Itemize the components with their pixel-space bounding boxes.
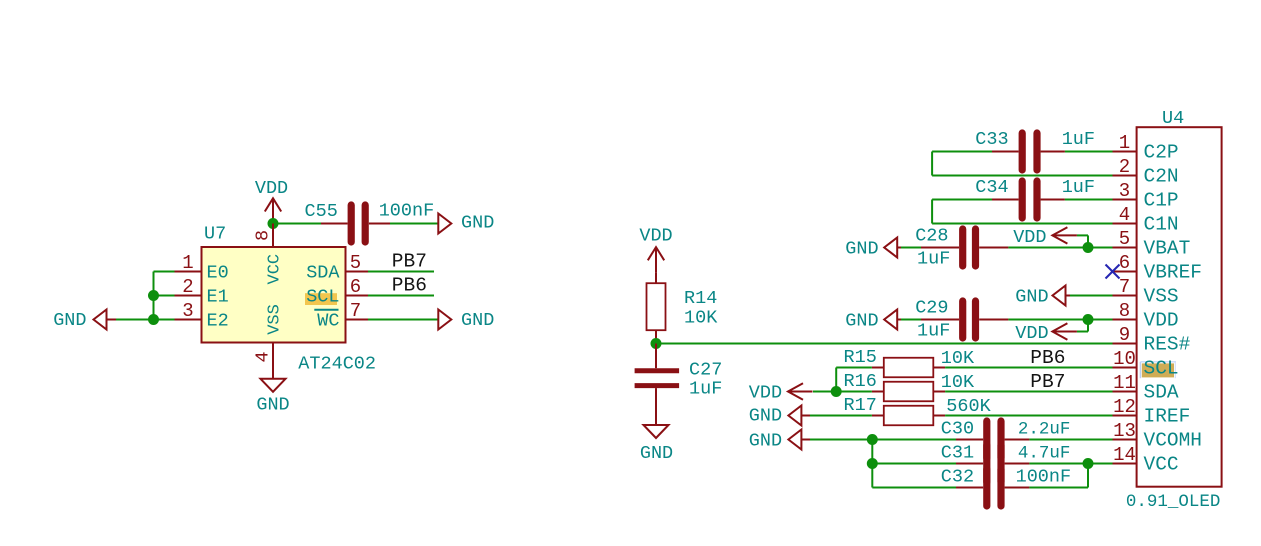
svg-text:7: 7	[1119, 276, 1130, 298]
svg-text:C1N: C1N	[1144, 214, 1179, 236]
svg-text:C31: C31	[941, 443, 974, 464]
svg-text:100nF: 100nF	[379, 201, 435, 222]
wire pin2 row	[932, 175, 1112, 177]
svg-text:1uF: 1uF	[1062, 177, 1095, 198]
highlight on U4 SCL pin name	[1140, 362, 1176, 378]
wire C30 to pin13	[1029, 439, 1112, 441]
U4 pin 14 VCC	[1113, 444, 1179, 476]
wire pin4 row	[932, 223, 1112, 225]
svg-text:VSS: VSS	[266, 304, 285, 335]
svg-text:VBREF: VBREF	[1144, 262, 1203, 284]
svg-text:E0: E0	[207, 263, 229, 284]
svg-text:1uF: 1uF	[1062, 129, 1095, 150]
svg-text:12: 12	[1113, 396, 1136, 418]
power symbol VDD (pin5 VBAT)	[1013, 227, 1077, 248]
svg-text:10: 10	[1113, 348, 1136, 370]
U4 pin 9 RES#	[1113, 324, 1191, 356]
svg-text:1: 1	[182, 252, 193, 274]
local label PB6	[392, 275, 427, 297]
svg-text:SCL: SCL	[306, 287, 339, 308]
wire loop vertical pin3-pin4	[931, 200, 933, 224]
junction dot C30 row	[867, 434, 878, 445]
capacitor C27 1uF	[635, 360, 723, 426]
svg-text:PB7: PB7	[1030, 371, 1065, 393]
capacitor C31 4.7uF	[872, 443, 1070, 483]
svg-text:GND: GND	[749, 431, 782, 452]
svg-text:1uF: 1uF	[689, 379, 722, 400]
junction dot at U7 VCC node	[268, 218, 279, 229]
svg-text:11: 11	[1113, 372, 1136, 394]
U4 pin 8 VDD	[1113, 300, 1179, 332]
U7 pin 5 SDA	[306, 252, 368, 284]
U7 pin 1 E0	[175, 252, 229, 284]
wire C28 to pin5	[1008, 247, 1112, 249]
U4 pin 13 VCOMH	[1113, 420, 1203, 452]
svg-text:2.2uF: 2.2uF	[1018, 420, 1071, 440]
svg-text:R17: R17	[844, 395, 877, 416]
svg-text:560K: 560K	[946, 396, 991, 417]
U4 pin 4 C1N	[1113, 204, 1179, 236]
wire vertical E0-E1-E2	[153, 272, 155, 320]
power symbol GND (R17 left)	[749, 406, 810, 427]
junction dot C31 row	[867, 458, 878, 469]
value 0.91_OLED	[1126, 492, 1221, 512]
svg-text:1: 1	[1119, 132, 1130, 154]
svg-text:GND: GND	[461, 213, 494, 234]
U7 pin 4 VSS (bottom)	[253, 304, 285, 379]
power symbol VDD (R15/R16)	[749, 383, 813, 404]
svg-text:C1P: C1P	[1144, 190, 1179, 212]
U7 pin 2 E1	[175, 276, 229, 308]
wire E2 to GND flag	[116, 319, 175, 321]
svg-text:VDD: VDD	[255, 178, 288, 199]
no-connect flag on U4 pin 6	[1106, 265, 1120, 279]
resistor R16 10K	[844, 371, 976, 401]
svg-text:10K: 10K	[684, 308, 718, 329]
svg-text:C2P: C2P	[1144, 142, 1179, 164]
svg-text:10K: 10K	[941, 348, 975, 369]
U7 pin 8 VCC (top)	[253, 224, 285, 285]
wire C34 right to pin3 stub	[1065, 199, 1113, 201]
svg-text:VDD: VDD	[1144, 310, 1179, 332]
power symbol VDD (R14 top)	[639, 226, 672, 273]
capacitor C55 100nF	[305, 201, 435, 243]
wire VDD node to C55	[273, 223, 321, 225]
U4 pin 3 C1P	[1113, 180, 1179, 212]
U4 pin 11 SDA	[1113, 372, 1179, 404]
capacitor C30 2.2uF	[872, 419, 1070, 459]
wire GND to R17	[810, 415, 872, 417]
capacitor C28 1uF	[915, 226, 1008, 270]
svg-text:SDA: SDA	[306, 263, 340, 284]
svg-text:1uF: 1uF	[917, 321, 950, 342]
wire GND to pin7	[1070, 295, 1113, 297]
svg-text:C55: C55	[305, 201, 338, 222]
local label PB7 (pin11)	[1030, 371, 1065, 393]
wire R16 to pin11	[945, 391, 1112, 393]
wire C55 to GND flag	[390, 223, 438, 225]
power symbol GND (left of U7)	[53, 310, 116, 332]
wire VDD to R14	[655, 272, 657, 283]
svg-text:C28: C28	[915, 226, 948, 247]
svg-text:GND: GND	[845, 239, 878, 260]
svg-text:C34: C34	[975, 177, 1008, 198]
svg-text:VDD: VDD	[1015, 323, 1048, 344]
svg-text:VDD: VDD	[639, 226, 672, 247]
svg-text:1uF: 1uF	[917, 249, 950, 270]
capacitor C33 1uF	[975, 129, 1095, 170]
wire E0 to bus corner	[154, 271, 175, 273]
capacitor C32 100nF	[872, 467, 1071, 507]
svg-text:6: 6	[350, 276, 361, 298]
power symbol VDD (pin8)	[1015, 323, 1077, 344]
junction dot E2	[148, 314, 159, 325]
resistor R14 10K	[647, 283, 719, 330]
reference U4	[1162, 108, 1184, 129]
svg-text:3: 3	[1119, 180, 1130, 202]
junction dot E1	[148, 290, 159, 301]
connector U4 body	[1137, 127, 1222, 487]
svg-text:C2N: C2N	[1144, 166, 1179, 188]
U4 pin 5 VBAT	[1113, 228, 1191, 260]
power symbol GND (right of WC)	[438, 310, 494, 332]
svg-text:R14: R14	[684, 288, 717, 309]
wire C31 to pin14	[1029, 463, 1112, 465]
svg-text:100nF: 100nF	[1016, 467, 1072, 488]
value AT24C02	[298, 354, 376, 375]
wire C33 left to pin1	[932, 151, 992, 153]
svg-text:VDD: VDD	[749, 383, 782, 404]
svg-text:C29: C29	[915, 298, 948, 319]
svg-text:VCOMH: VCOMH	[1144, 430, 1203, 452]
svg-text:RES#: RES#	[1144, 334, 1191, 356]
power symbol GND (left of C28)	[845, 238, 901, 260]
svg-text:5: 5	[350, 252, 361, 274]
local label PB7	[392, 251, 427, 273]
svg-text:14: 14	[1113, 444, 1136, 466]
wire E1 stub	[154, 295, 175, 297]
wire R14 to RES# node	[655, 330, 657, 343]
power symbol GND (left of C29)	[845, 310, 901, 332]
svg-text:GND: GND	[845, 311, 878, 332]
svg-text:PB6: PB6	[1030, 347, 1065, 369]
power symbol GND (below U7 pin 4)	[256, 379, 289, 416]
svg-text:AT24C02: AT24C02	[298, 354, 376, 375]
svg-text:VCC: VCC	[266, 254, 285, 285]
svg-text:GND: GND	[461, 310, 494, 331]
svg-text:U4: U4	[1162, 108, 1184, 129]
svg-text:C27: C27	[689, 360, 722, 381]
svg-text:R16: R16	[844, 371, 877, 392]
svg-text:9: 9	[1119, 324, 1130, 346]
svg-text:2: 2	[182, 276, 193, 298]
svg-text:VBAT: VBAT	[1144, 238, 1191, 260]
svg-text:4.7uF: 4.7uF	[1018, 444, 1071, 464]
U7 pin 7 WC (active low)	[314, 300, 368, 332]
reference U7	[204, 224, 226, 245]
svg-text:VDD: VDD	[1013, 227, 1046, 248]
svg-text:0.91_OLED: 0.91_OLED	[1126, 492, 1221, 512]
wire RES# node to U4 pin 9	[656, 343, 1113, 345]
capacitor C29 1uF	[915, 298, 1008, 342]
wire C34 left to pin3	[932, 199, 992, 201]
wire SCL to label PB6	[368, 295, 434, 297]
wire C30 junction vertical	[871, 440, 873, 488]
svg-text:SDA: SDA	[1144, 382, 1179, 404]
svg-text:U7: U7	[204, 224, 226, 245]
wire SDA to label PB7	[368, 271, 434, 273]
svg-text:4: 4	[1119, 204, 1130, 226]
svg-text:10K: 10K	[941, 372, 975, 393]
svg-text:3: 3	[182, 300, 193, 322]
wire node to C27	[655, 344, 657, 369]
svg-text:13: 13	[1113, 420, 1136, 442]
U4 pin 6 VBREF	[1113, 252, 1203, 284]
junction dot RES# node	[651, 338, 662, 349]
wire C32 right up to pin14	[1029, 464, 1088, 488]
U4 pin 7 VSS	[1113, 276, 1179, 308]
U4 pin 12 IREF	[1113, 396, 1191, 428]
svg-text:PB6: PB6	[392, 275, 427, 297]
wire pin8 dot down to VDD arrow	[1077, 320, 1088, 332]
wire GND to C29	[901, 319, 921, 321]
power symbol GND (C30 row)	[749, 430, 810, 452]
junction dot R15/R16 VDD	[831, 386, 842, 397]
wire C29 to pin8	[1008, 319, 1112, 321]
highlight on U7 SCL pin name	[305, 293, 337, 305]
junction dot pin14	[1083, 458, 1094, 469]
svg-text:E2: E2	[207, 311, 229, 332]
svg-text:GND: GND	[749, 406, 782, 427]
U7 pin 6 SCL	[306, 276, 368, 308]
svg-text:GND: GND	[640, 443, 673, 464]
power symbol GND (pin7 VSS)	[1015, 286, 1070, 308]
svg-text:E1: E1	[207, 287, 229, 308]
wire C33 right to pin1 stub	[1065, 151, 1113, 153]
wire pin5 dot up to VDD arrow	[1077, 235, 1088, 247]
svg-text:C33: C33	[975, 129, 1008, 150]
wire R15 to pin10	[945, 367, 1112, 369]
wire R15 left	[836, 368, 872, 392]
wire VDD arrow to dot	[813, 391, 872, 393]
power symbol GND (right of C55)	[438, 213, 494, 234]
svg-text:R15: R15	[844, 347, 877, 368]
svg-text:WC: WC	[317, 311, 339, 332]
power symbol GND (below C27)	[640, 425, 673, 464]
svg-text:PB7: PB7	[392, 251, 427, 273]
svg-text:VSS: VSS	[1144, 286, 1179, 308]
U4 pin 10 SCL	[1113, 348, 1179, 380]
svg-text:IREF: IREF	[1144, 406, 1191, 428]
wire GND to C30 junction	[810, 439, 872, 441]
svg-text:4: 4	[253, 351, 274, 362]
svg-text:GND: GND	[53, 310, 86, 331]
junction dot pin8	[1083, 314, 1094, 325]
junction dot pin5	[1083, 242, 1094, 253]
local label PB6 (pin10)	[1030, 347, 1065, 369]
svg-text:GND: GND	[256, 395, 289, 416]
resistor R17 560K	[844, 395, 992, 425]
capacitor C34 1uF	[975, 177, 1095, 218]
U7 pin 3 E2	[175, 300, 229, 332]
wire R17 to pin12	[945, 415, 1112, 417]
svg-text:5: 5	[1119, 228, 1130, 250]
svg-text:8: 8	[1119, 300, 1130, 322]
svg-text:SCL: SCL	[1144, 358, 1179, 380]
resistor R15 10K	[844, 347, 976, 377]
svg-text:2: 2	[1119, 156, 1130, 178]
IC U7 body (AT24C02)	[202, 247, 346, 343]
power symbol VDD (U7 VCC net)	[255, 178, 288, 224]
svg-text:VCC: VCC	[1144, 454, 1179, 476]
wire GND to C28	[901, 247, 921, 249]
svg-text:C32: C32	[941, 467, 974, 488]
U4 pin 1 C2P	[1113, 132, 1179, 164]
svg-text:8: 8	[253, 230, 274, 241]
wire loop vertical pin1-pin2	[931, 152, 933, 176]
svg-text:GND: GND	[1015, 287, 1048, 308]
U4 pin 2 C2N	[1113, 156, 1179, 188]
svg-text:7: 7	[350, 300, 361, 322]
wire WC to GND flag	[368, 319, 438, 321]
svg-text:6: 6	[1119, 252, 1130, 274]
svg-text:C30: C30	[941, 419, 974, 440]
